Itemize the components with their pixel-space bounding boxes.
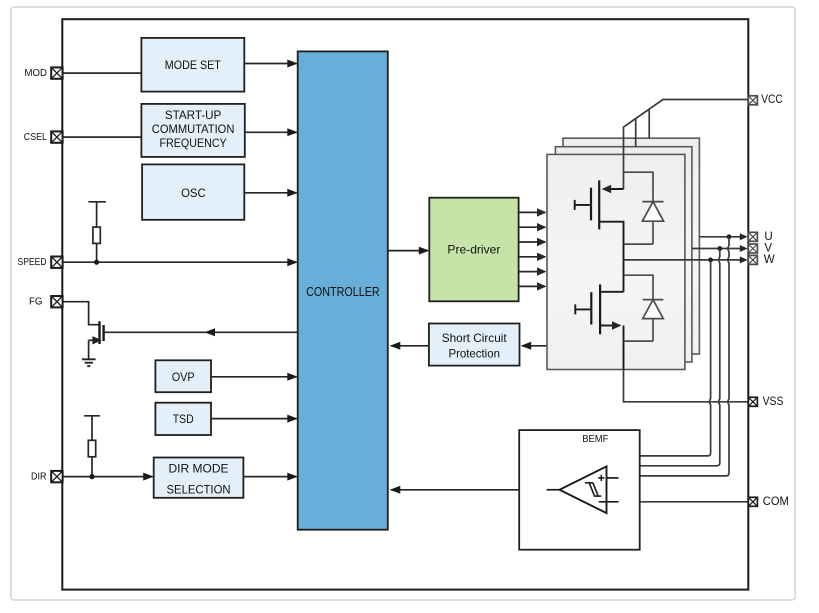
wire VCC feed — [624, 100, 751, 190]
block OSC — [142, 164, 244, 219]
svg-text:SELECTION: SELECTION — [167, 482, 231, 496]
wire START-UP to controller — [245, 128, 298, 136]
wire Pre-driver to bridge — [519, 223, 547, 231]
svg-text:DIR: DIR — [31, 471, 47, 483]
wire Pre-driver to bridge — [519, 282, 547, 290]
svg-text:MOD: MOD — [25, 67, 48, 79]
svg-text:VSS: VSS — [763, 396, 784, 408]
block OVP — [155, 360, 211, 392]
svg-text:V: V — [764, 243, 772, 255]
wire MODE SET to controller — [244, 60, 297, 68]
block TSD — [155, 403, 211, 435]
wire OVP to controller — [211, 373, 298, 381]
wire DIR to DIR MODE SELECTION — [62, 473, 153, 481]
wire phase W — [624, 256, 748, 263]
IC boundary — [62, 19, 748, 589]
node junction SPEED/R1 — [94, 260, 99, 265]
wire phase U — [699, 233, 747, 240]
wire Pre-driver to bridge — [519, 267, 547, 275]
wire phase V — [692, 245, 748, 252]
pin V — [748, 243, 772, 255]
wire controller to Q1 drain — [204, 328, 298, 336]
resistor R2 (DIR) — [84, 416, 100, 477]
wire W sense to BEMF — [640, 260, 711, 456]
block DIR MODE SELECTION — [154, 458, 244, 498]
svg-text:BEMF: BEMF — [582, 434, 608, 445]
node W junction — [708, 258, 713, 263]
resistor R1 (SPEED) — [88, 202, 106, 262]
wire Pre-driver to bridge — [519, 238, 547, 246]
block CONTROLLER — [298, 51, 388, 529]
block BEMF — [519, 430, 640, 550]
pin COM — [748, 496, 788, 508]
svg-text:FREQUENCY: FREQUENCY — [160, 136, 227, 150]
wire DIR MODE SELECTION to controller — [243, 473, 297, 481]
wire Short Circuit Protection to controller — [390, 342, 429, 350]
block MODE SET — [141, 38, 244, 92]
wire V sense to BEMF — [640, 249, 720, 466]
wire BEMF to COM — [640, 501, 748, 503]
svg-text:COMMUTATION: COMMUTATION — [152, 122, 235, 136]
wire SPEED to controller — [62, 258, 297, 266]
wire U sense to BEMF — [640, 237, 729, 476]
bridge panel back — [563, 138, 699, 354]
ground — [82, 359, 96, 366]
transistor Q3 (low side) — [575, 260, 623, 370]
wire FG to Q1 gate — [62, 302, 98, 325]
bridge panel front — [547, 154, 685, 369]
pin VSS — [748, 396, 783, 408]
pin SPEED — [18, 256, 63, 268]
pin U — [748, 231, 772, 243]
svg-text:SPEED: SPEED — [18, 256, 47, 268]
svg-text:OSC: OSC — [181, 186, 206, 200]
svg-text:TSD: TSD — [173, 412, 194, 426]
transistor Q1 (FG open drain) — [89, 321, 204, 359]
block Short Circuit Protection — [429, 324, 520, 366]
svg-text:Protection: Protection — [448, 346, 500, 360]
pin DIR — [31, 471, 63, 483]
svg-text:FG: FG — [29, 296, 43, 308]
wire bridge to Short Circuit Protection — [521, 342, 547, 350]
wire MOD to MODE SET — [62, 72, 141, 74]
svg-text:CONTROLLER: CONTROLLER — [306, 284, 380, 299]
svg-text:MODE SET: MODE SET — [165, 58, 222, 72]
bridge panel middle — [555, 147, 692, 362]
diode D2 (low side) — [624, 275, 664, 341]
svg-text:START-UP: START-UP — [165, 108, 221, 122]
svg-text:W: W — [764, 254, 775, 266]
pin FG — [29, 296, 63, 308]
wire controller to Pre-driver — [388, 247, 430, 255]
wire BEMF output to controller — [390, 486, 519, 494]
svg-text:COM: COM — [763, 496, 789, 508]
wire VSS from bridge — [624, 370, 748, 402]
pin CSEL — [24, 131, 63, 143]
transistor Q2 (high side) — [575, 180, 624, 260]
svg-text:CSEL: CSEL — [24, 131, 47, 143]
wire Pre-driver to bridge — [519, 253, 547, 261]
svg-text:Short Circuit: Short Circuit — [442, 331, 508, 345]
svg-text:VCC: VCC — [761, 94, 782, 106]
pin VCC — [748, 94, 782, 106]
pin MOD — [25, 67, 63, 79]
node U junction — [727, 234, 732, 239]
svg-text:OVP: OVP — [172, 370, 195, 384]
wire TSD to controller — [211, 415, 298, 423]
svg-text:DIR MODE: DIR MODE — [169, 462, 229, 476]
pin W — [748, 254, 774, 266]
wire OSC to controller — [244, 189, 297, 197]
op-amp comparator U1 — [547, 466, 619, 513]
block START-UP COMMUTATION FREQUENCY — [141, 104, 244, 157]
diode D1 (high side) — [624, 172, 664, 244]
svg-text:Pre-driver: Pre-driver — [447, 242, 500, 256]
node junction DIR/R2 — [89, 474, 94, 479]
wire Pre-driver to bridge 1 — [519, 208, 547, 216]
node V junction — [717, 246, 722, 251]
block Pre-driver — [429, 198, 518, 302]
wire CSEL to START-UP block — [62, 136, 141, 138]
svg-text:U: U — [764, 231, 772, 243]
